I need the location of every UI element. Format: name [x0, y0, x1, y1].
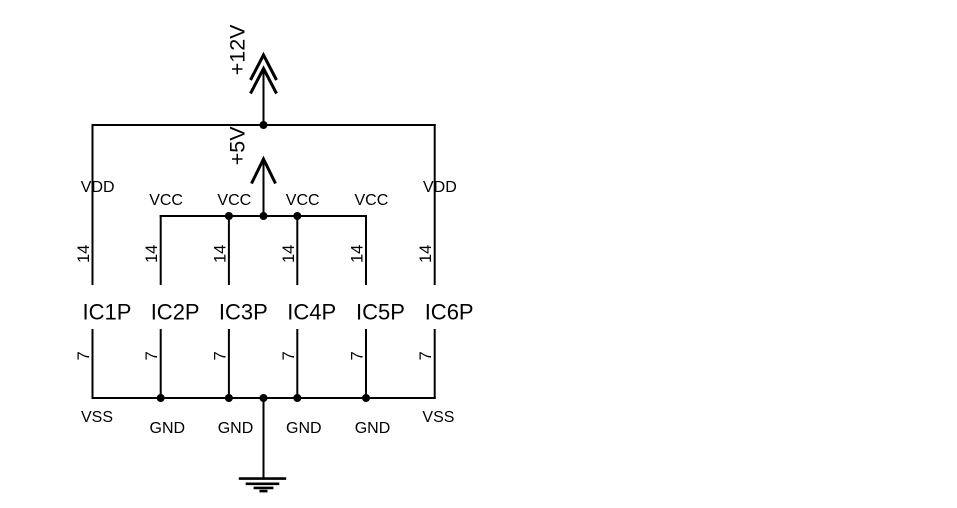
IC IC2P (power pins part): [151, 300, 200, 325]
svg-text:VSS: VSS: [422, 409, 454, 426]
pin number 14 of IC2P: [143, 245, 161, 263]
power symbol +5V: [252, 159, 276, 216]
wire: IC1P pin 7 vertical: [92, 329, 94, 399]
svg-text:14: 14: [211, 245, 229, 263]
svg-text:GND: GND: [150, 420, 186, 437]
svg-text:IC2P: IC2P: [151, 300, 200, 325]
label GND (IC5P pin name): [355, 420, 391, 437]
svg-text:VCC: VCC: [149, 192, 183, 209]
node: ground junction dot at IC5P: [362, 394, 370, 402]
wire: IC4P pin 7 vertical: [296, 329, 298, 398]
pin number 7 of IC2P: [143, 351, 161, 360]
svg-text:GND: GND: [355, 420, 391, 437]
wire: ground stem: [263, 398, 265, 478]
svg-text:VCC: VCC: [286, 192, 320, 209]
wire: IC6P pin 14 vertical: [434, 124, 436, 285]
IC IC6P (power pins part): [425, 300, 474, 325]
IC IC3P (power pins part): [219, 300, 268, 325]
svg-text:IC5P: IC5P: [356, 300, 405, 325]
wire: IC3P pin 14 vertical: [228, 215, 230, 285]
svg-text:+5V: +5V: [226, 126, 250, 166]
svg-text:14: 14: [75, 245, 93, 263]
wire: VCC rail: [160, 215, 367, 217]
node: ground junction dot center: [260, 394, 268, 402]
svg-text:VCC: VCC: [355, 192, 389, 209]
pin number 7 of IC6P: [417, 351, 435, 360]
IC IC5P (power pins part): [356, 300, 405, 325]
label VSS (IC1P pin name): [81, 409, 113, 426]
wire: IC2P pin 7 vertical: [160, 329, 162, 398]
svg-text:7: 7: [280, 351, 298, 360]
label VDD (IC6P pin name): [423, 179, 457, 196]
svg-text:IC3P: IC3P: [219, 300, 268, 325]
pin number 14 of IC3P: [211, 245, 229, 263]
node: VCC junction dot at IC4P: [293, 212, 301, 220]
wire: IC5P pin 7 vertical: [365, 329, 367, 398]
svg-text:IC4P: IC4P: [287, 300, 336, 325]
node: VCC junction dot at +5V stem: [260, 212, 268, 220]
svg-text:14: 14: [417, 245, 435, 263]
svg-text:14: 14: [280, 245, 298, 263]
node: ground junction dot at IC3P: [225, 394, 233, 402]
svg-text:VDD: VDD: [81, 179, 115, 196]
label VCC (IC3P pin name): [217, 192, 251, 209]
svg-text:14: 14: [143, 245, 161, 263]
pin number 7 of IC5P: [349, 351, 367, 360]
svg-text:VDD: VDD: [423, 179, 457, 196]
svg-text:7: 7: [349, 351, 367, 360]
wire: IC6P pin 7 vertical: [434, 329, 436, 399]
wire: IC5P pin 14 vertical: [365, 215, 367, 285]
node: ground junction dot at IC4P: [293, 394, 301, 402]
wire: bottom ground rail: [92, 397, 436, 399]
pin number 14 of IC5P: [349, 245, 367, 263]
pin number 7 of IC1P: [75, 351, 93, 360]
svg-text:7: 7: [211, 351, 229, 360]
pin number 14 of IC1P: [75, 245, 93, 263]
label VCC (IC4P pin name): [286, 192, 320, 209]
ground: [239, 479, 286, 492]
label +5V: [226, 126, 250, 166]
svg-text:VCC: VCC: [217, 192, 251, 209]
pin number 14 of IC4P: [280, 245, 298, 263]
svg-text:IC1P: IC1P: [83, 300, 132, 325]
label VDD (IC1P pin name): [81, 179, 115, 196]
wire: IC3P pin 7 vertical: [228, 329, 230, 398]
label VCC (IC5P pin name): [355, 192, 389, 209]
pin number 7 of IC3P: [211, 351, 229, 360]
wire: top +12V rail: [92, 124, 436, 126]
label GND (IC2P pin name): [150, 420, 186, 437]
label GND (IC4P pin name): [286, 420, 322, 437]
node: +12V junction dot: [260, 121, 268, 129]
label VCC (IC2P pin name): [149, 192, 183, 209]
svg-text:IC6P: IC6P: [425, 300, 474, 325]
svg-text:7: 7: [75, 351, 93, 360]
node: ground junction dot at IC2P: [157, 394, 165, 402]
label GND (IC3P pin name): [218, 420, 254, 437]
svg-text:GND: GND: [286, 420, 322, 437]
pin number 14 of IC6P: [417, 245, 435, 263]
svg-text:+12V: +12V: [226, 24, 250, 75]
svg-text:7: 7: [143, 351, 161, 360]
svg-text:VSS: VSS: [81, 409, 113, 426]
wire: IC1P pin 14 vertical: [92, 124, 94, 285]
wire: IC2P pin 14 vertical: [160, 215, 162, 285]
pin number 7 of IC4P: [280, 351, 298, 360]
power symbol +12V: [251, 55, 277, 125]
svg-text:GND: GND: [218, 420, 254, 437]
IC IC1P (power pins part): [83, 300, 132, 325]
svg-text:7: 7: [417, 351, 435, 360]
label VSS (IC6P pin name): [422, 409, 454, 426]
wire: IC4P pin 14 vertical: [296, 215, 298, 285]
node: VCC junction dot at IC3P: [225, 212, 233, 220]
svg-text:14: 14: [349, 245, 367, 263]
label +12V: [226, 24, 250, 75]
IC IC4P (power pins part): [287, 300, 336, 325]
